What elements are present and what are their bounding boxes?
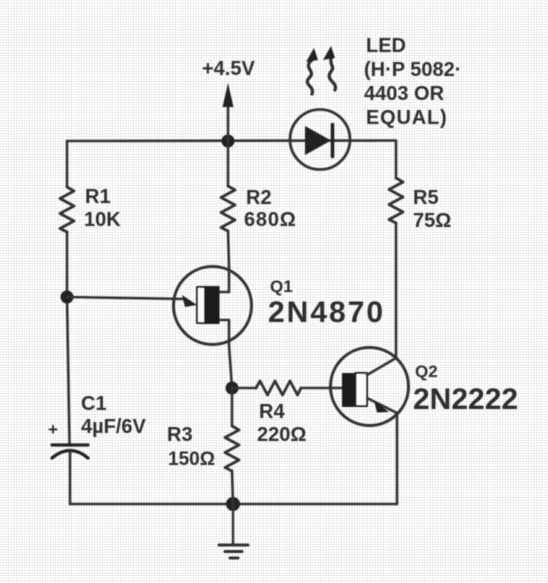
wire: node to R4	[232, 387, 256, 390]
bar (white)	[356, 373, 368, 406]
node: top junction dot at +4.5V feed	[222, 135, 235, 148]
svg-text:LED: LED	[366, 35, 406, 57]
svg-text:75Ω: 75Ω	[413, 210, 451, 232]
capacitor C1	[48, 420, 88, 458]
wire: R3 to bottom rail	[232, 471, 233, 504]
svg-text:4µF/6V: 4µF/6V	[81, 416, 147, 438]
svg-text:Q1: Q1	[270, 277, 293, 296]
svg-text:+4.5V: +4.5V	[202, 58, 255, 80]
wire: R4 to Q2 base	[301, 387, 342, 390]
wire: left rail mid segment	[67, 232, 70, 444]
svg-text:R4: R4	[259, 401, 285, 423]
resistor R5	[389, 178, 403, 223]
base bar (black)	[342, 373, 355, 407]
ground	[219, 504, 248, 558]
collector lead	[367, 358, 396, 375]
emitter arrowhead	[374, 401, 389, 413]
wire: bottom rail	[70, 503, 396, 506]
svg-text:Q2: Q2	[415, 362, 438, 381]
svg-text:2N4870: 2N4870	[268, 296, 385, 329]
wire: top rail	[67, 139, 396, 142]
base2 lead inside	[219, 266, 229, 292]
LED light arrow right	[323, 46, 335, 90]
svg-text:R3: R3	[167, 424, 193, 446]
wire: right rail top segment	[395, 141, 398, 178]
LED light arrow left	[306, 48, 318, 94]
svg-text:EQUAL): EQUAL)	[366, 107, 447, 129]
transistor Q2 (2N2222)	[331, 348, 409, 426]
wire: R3 node down	[231, 388, 234, 426]
svg-text:+: +	[48, 420, 58, 439]
svg-text:150Ω: 150Ω	[168, 449, 215, 470]
resistor R3	[225, 426, 239, 471]
resistor R4	[256, 381, 301, 395]
svg-text:4403 OR: 4403 OR	[364, 83, 445, 105]
node: left junction to Q1 emitter	[61, 291, 74, 304]
node: R3/R4 junction dot	[226, 382, 239, 395]
svg-text:R5: R5	[413, 187, 439, 209]
node: bottom junction dot	[226, 497, 240, 511]
emitter arrowhead	[182, 295, 197, 307]
svg-text:10K: 10K	[84, 209, 121, 231]
emitter bar (white)	[197, 287, 205, 323]
wire: emitter feed to Q1	[67, 297, 185, 299]
svg-text:R1: R1	[85, 186, 111, 208]
resistor R1	[60, 187, 74, 232]
emitter lead	[367, 398, 397, 413]
base1 lead inside	[219, 320, 229, 345]
base bar (black)	[205, 286, 220, 324]
svg-text:220Ω: 220Ω	[257, 424, 306, 446]
LED D1	[290, 110, 350, 170]
svg-text:680Ω: 680Ω	[244, 209, 297, 231]
svg-text:(H·P 5082·: (H·P 5082·	[364, 59, 461, 81]
svg-text:C1: C1	[81, 393, 107, 415]
svg-text:2N2222: 2N2222	[413, 383, 518, 416]
wire: R5 down to Q2 collector	[395, 223, 398, 358]
+4.5V supply arrow	[223, 83, 234, 141]
wire: middle rail top to R2	[227, 141, 230, 186]
wire: Q1 base1 down to R4/R3 node	[229, 345, 232, 388]
svg-text:R2: R2	[246, 187, 272, 209]
resistor R2	[221, 186, 235, 231]
wire: left rail lower segment	[69, 451, 72, 504]
wire: Q2 emitter down to bottom rail	[396, 413, 399, 504]
transistor Q1 (UJT 2N4870)	[174, 266, 252, 345]
wire: left rail upper segment	[66, 141, 69, 187]
wire: R2 to Q1 base2	[228, 231, 229, 266]
